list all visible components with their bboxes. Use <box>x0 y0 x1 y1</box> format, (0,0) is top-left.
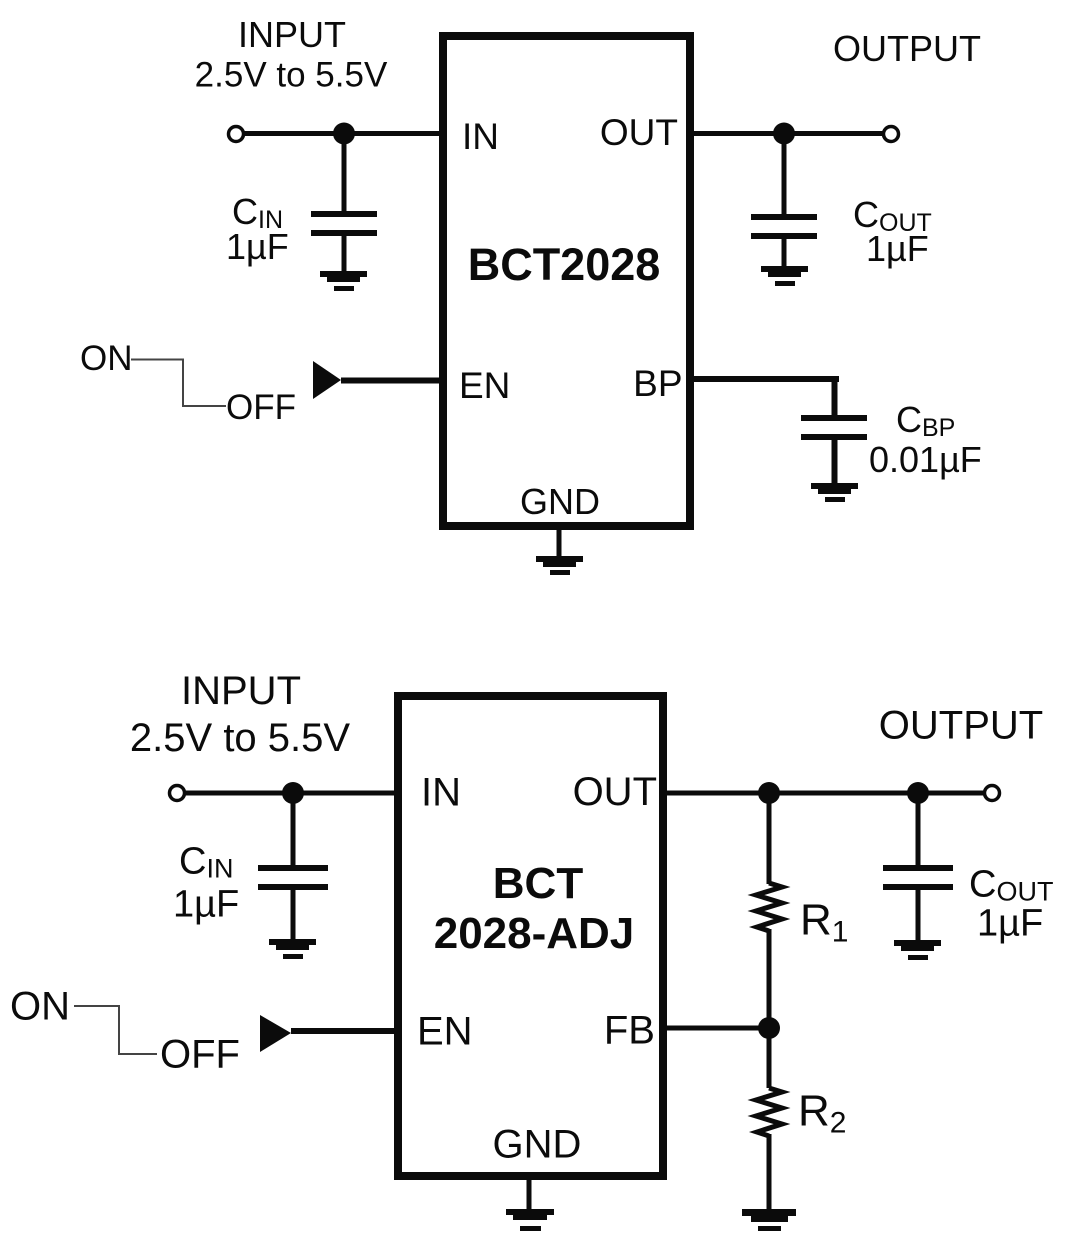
svg-text:1µF: 1µF <box>866 228 929 269</box>
svg-text:ON: ON <box>10 985 70 1029</box>
node R1 junction <box>758 782 780 804</box>
capacitor CIN <box>311 211 377 217</box>
wire FB node to R2 <box>767 1028 772 1088</box>
svg-text:IN: IN <box>462 116 499 157</box>
svg-text:FB: FB <box>604 1009 655 1053</box>
ground (CBP) <box>811 483 858 502</box>
capacitor CIN (U2) <box>258 865 328 871</box>
svg-text:OUTPUT: OUTPUT <box>879 704 1043 748</box>
wire junction to R1 <box>767 793 772 884</box>
svg-text:1µF: 1µF <box>226 226 289 267</box>
resistor R2 <box>756 1088 782 1136</box>
wire BP down to CBP <box>832 376 838 416</box>
svg-text:0.01µF: 0.01µF <box>869 439 982 480</box>
capacitor COUT (U2) <box>883 865 953 871</box>
wire junction to CIN (U2) <box>291 793 296 866</box>
ground (GND pin U2) <box>506 1209 554 1231</box>
wire OUT to output terminal (U2) <box>663 791 984 796</box>
wire junction to COUT (U2) <box>916 793 921 866</box>
svg-text:2.5V to 5.5V: 2.5V to 5.5V <box>195 56 388 95</box>
output terminal <box>884 127 899 142</box>
wire on/off step <box>131 360 226 407</box>
buffer triangle (EN drive U2) <box>260 1015 291 1052</box>
wire EN (U2) <box>291 1028 398 1034</box>
svg-text:EN: EN <box>459 365 510 406</box>
wire junction to CIN <box>342 134 347 212</box>
svg-text:IN: IN <box>421 771 461 815</box>
svg-text:EN: EN <box>417 1010 473 1054</box>
svg-text:1µF: 1µF <box>977 903 1043 945</box>
wire GND pin <box>557 526 562 557</box>
input terminal <box>229 127 244 142</box>
svg-text:OUT: OUT <box>600 112 678 153</box>
wire COUT to ground <box>782 239 787 267</box>
node COUT junction <box>907 782 929 804</box>
ground (GND pin) <box>536 556 583 575</box>
svg-text:OFF: OFF <box>160 1033 240 1077</box>
wire CBP to ground <box>832 440 838 484</box>
wire EN <box>341 378 443 384</box>
op-amp U1 (IC box BCT2028) <box>443 36 690 526</box>
svg-text:OUTPUT: OUTPUT <box>833 28 981 69</box>
svg-text:BCT2028: BCT2028 <box>468 239 661 290</box>
wire OUT to output terminal <box>690 131 884 136</box>
node FB junction <box>758 1017 780 1039</box>
ground (CIN) <box>320 271 367 291</box>
svg-text:2.5V to 5.5V: 2.5V to 5.5V <box>130 716 350 760</box>
svg-text:BCT: BCT <box>493 859 584 908</box>
svg-text:GND: GND <box>493 1123 582 1167</box>
node input junction <box>333 123 355 145</box>
svg-text:OFF: OFF <box>226 388 296 427</box>
svg-text:INPUT: INPUT <box>238 14 346 55</box>
output terminal (U2) <box>985 786 1000 801</box>
op-amp U2 (IC box BCT2028-ADJ) <box>398 696 663 1176</box>
wire on/off step (U2) <box>74 1006 157 1054</box>
svg-text:BP: BP <box>633 363 682 404</box>
input terminal (U2) <box>170 786 185 801</box>
wire R1 to FB node <box>767 929 772 1028</box>
svg-text:OUT: OUT <box>573 770 657 814</box>
capacitor CBP <box>801 415 867 421</box>
svg-text:INPUT: INPUT <box>181 669 301 713</box>
wire COUT to ground (U2) <box>916 890 921 941</box>
node output junction <box>773 123 795 145</box>
svg-text:GND: GND <box>520 481 600 522</box>
resistor R1 <box>756 883 782 931</box>
wire R2 to ground <box>767 1134 772 1210</box>
svg-text:1µF: 1µF <box>173 884 239 926</box>
wire CIN to ground <box>342 236 347 272</box>
ground (R2) <box>742 1209 796 1231</box>
wire GND pin (U2) <box>527 1176 532 1210</box>
wire BP <box>690 376 839 382</box>
wire input to IN (U2) <box>185 791 398 796</box>
ground (COUT U2) <box>894 940 941 960</box>
ground (CIN U2) <box>269 939 316 959</box>
svg-text:2028-ADJ: 2028-ADJ <box>434 909 635 958</box>
wire FB <box>663 1026 769 1031</box>
buffer triangle (EN drive) <box>313 361 341 399</box>
node input junction (U2) <box>282 782 304 804</box>
wire input to IN <box>244 131 443 136</box>
svg-text:ON: ON <box>80 339 133 378</box>
wire junction to COUT <box>782 134 787 215</box>
capacitor COUT <box>751 214 817 220</box>
wire CIN to ground (U2) <box>291 890 296 940</box>
ground (COUT) <box>761 266 808 286</box>
